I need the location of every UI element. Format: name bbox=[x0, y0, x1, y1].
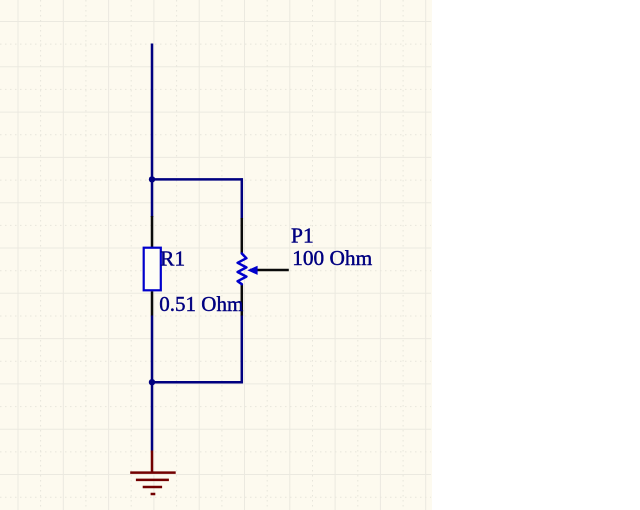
wire top vertical bbox=[151, 44, 154, 218]
wire right vertical upper bbox=[241, 178, 244, 219]
wire bottom horizontal bbox=[151, 381, 243, 384]
pin 1 of P1 bbox=[241, 218, 244, 254]
wire top horizontal bbox=[151, 178, 243, 181]
pin 2 of R1 bbox=[151, 291, 154, 315]
ground power port GND bbox=[130, 451, 176, 495]
svg-text:100 Ohm: 100 Ohm bbox=[292, 246, 372, 270]
wire right vertical lower bbox=[241, 316, 244, 384]
svg-text:R1: R1 bbox=[160, 246, 185, 270]
junction node top bbox=[149, 176, 155, 182]
wire left vertical lower bbox=[151, 316, 154, 383]
wire to ground bbox=[151, 382, 154, 450]
resistor R1 body bbox=[144, 248, 161, 291]
pin 2 of P1 bbox=[241, 284, 244, 316]
svg-text:P1: P1 bbox=[291, 223, 314, 247]
pin 1 of R1 bbox=[151, 216, 154, 247]
junction node bottom bbox=[149, 379, 155, 385]
svg-text:0.51 Ohm: 0.51 Ohm bbox=[159, 292, 243, 316]
wiper arrow of P1 bbox=[247, 266, 257, 275]
potentiometer P1 body (zigzag) bbox=[238, 254, 247, 285]
wiper pin 3 of P1 bbox=[250, 269, 289, 272]
